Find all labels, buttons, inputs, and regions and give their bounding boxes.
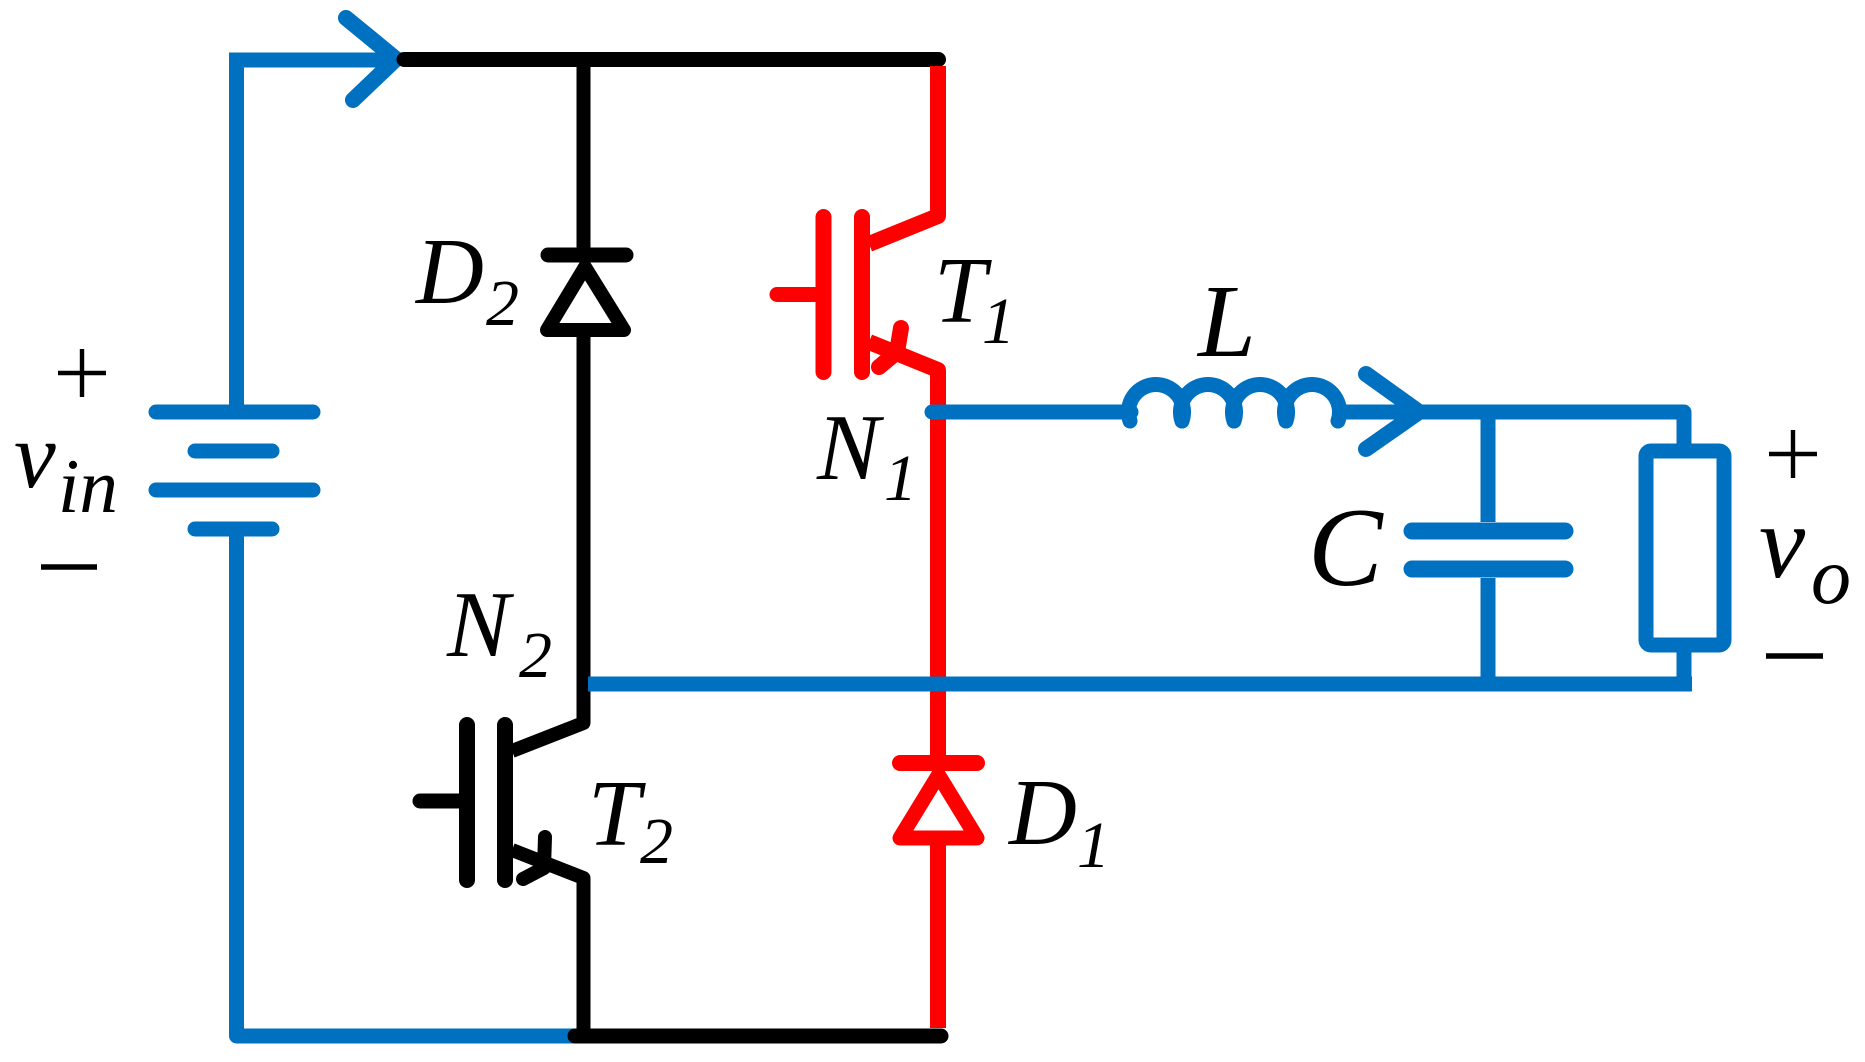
inductor L hump 1 xyxy=(1128,385,1183,422)
arrow: input current direction xyxy=(346,18,396,100)
wire: N1 to inductor (blue) xyxy=(932,405,1131,420)
svg-text:1: 1 xyxy=(982,285,1015,358)
inductor L hump 3 xyxy=(1232,384,1287,421)
label - (output) xyxy=(1766,653,1823,659)
capacitor C top plate xyxy=(1412,523,1565,540)
T2 body bar xyxy=(497,725,513,880)
svg-text:o: o xyxy=(1811,533,1851,621)
battery v_in plate 2 (short) xyxy=(195,444,272,459)
diode D1 cathode bar (red) xyxy=(900,755,977,771)
svg-text:v: v xyxy=(14,404,56,508)
T1 emitter arrow xyxy=(879,328,901,367)
inductor L hump 4 xyxy=(1284,385,1339,422)
svg-text:v: v xyxy=(1759,485,1806,600)
T2 gate bar xyxy=(459,725,475,880)
diode D2 cathode bar xyxy=(548,248,626,263)
svg-text:N: N xyxy=(446,573,515,677)
diode D1 triangle (red) xyxy=(900,775,977,838)
wire: inductor to load corner (blue) xyxy=(1334,412,1684,444)
svg-text:1: 1 xyxy=(884,442,917,515)
svg-text:in: in xyxy=(58,443,118,529)
label - (input) xyxy=(41,564,97,570)
label + (output) xyxy=(1769,452,1817,456)
T2 gate lead xyxy=(420,794,462,809)
T1 body bar xyxy=(854,217,870,372)
battery v_in plate 1 (long) xyxy=(156,405,313,420)
battery v_in plate 4 (short) xyxy=(195,522,272,537)
svg-text:C: C xyxy=(1308,486,1384,610)
arrow: output current direction xyxy=(1366,374,1419,449)
wire: capacitor top lead (blue) xyxy=(1481,412,1496,522)
svg-text:N: N xyxy=(816,396,885,500)
svg-text:2: 2 xyxy=(486,267,519,340)
T1 emitter diagonal xyxy=(869,342,938,765)
svg-text:T: T xyxy=(588,762,646,866)
load resistor (blue rectangle) xyxy=(1646,451,1724,645)
wire: D2 anode to T2 collector (black vertical) xyxy=(512,330,584,751)
T1 gate bar xyxy=(816,217,832,372)
wire: middle rail (blue) xyxy=(588,677,1692,692)
wire: T1 collector from top rail (red vertical) xyxy=(869,66,938,244)
transistor T2 (IGBT, black) xyxy=(420,725,584,1036)
svg-text:D: D xyxy=(414,220,484,324)
svg-text:1: 1 xyxy=(1077,809,1110,882)
wire: top rail (black) xyxy=(404,52,939,67)
diode D2 triangle xyxy=(547,267,624,330)
wire: capacitor bottom lead (blue) xyxy=(1481,578,1496,684)
svg-text:2: 2 xyxy=(640,805,673,878)
svg-text:L: L xyxy=(1196,264,1256,379)
inductor L hump 2 xyxy=(1180,384,1235,421)
wire: bottom rail (black) xyxy=(575,1029,941,1044)
battery v_in plate 3 (long) xyxy=(156,483,313,498)
svg-text:2: 2 xyxy=(519,619,552,692)
capacitor C bottom plate xyxy=(1412,561,1565,578)
svg-text:D: D xyxy=(1007,761,1077,865)
label + (input) xyxy=(58,371,106,375)
wire: input left vertical down + bottom blue rail xyxy=(237,529,576,1036)
wire: input top horizontal (blue) xyxy=(237,60,391,412)
T1 gate lead xyxy=(777,287,819,302)
wire: D2 cathode lead (black vertical) xyxy=(577,60,591,255)
wire: load bottom lead (blue) xyxy=(1677,645,1692,684)
T2 emitter arrow xyxy=(523,837,545,879)
transistor T1 (IGBT, red) xyxy=(777,217,938,765)
T2 emitter diagonal xyxy=(512,850,584,1036)
wire: D1 anode to bottom rail (red vertical) xyxy=(930,839,946,1028)
